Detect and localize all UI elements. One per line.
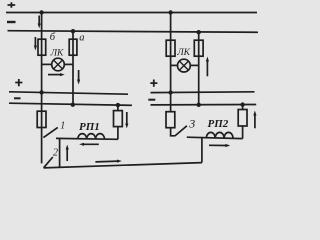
svg-text:ЛК: ЛК	[176, 48, 190, 58]
wire left column section1	[41, 13, 43, 164]
arrow down left of fuse b	[34, 37, 36, 47]
fixed wire to coil RP2	[187, 137, 243, 138]
up arrow right of fuse d	[206, 60, 208, 76]
lamp tee left stub 2	[171, 64, 178, 66]
node dot A1	[39, 10, 43, 14]
node dot C2	[197, 30, 201, 34]
minus label lower-left	[14, 97, 21, 99]
bus plus top	[6, 12, 257, 14]
right arrow under coil RP2	[209, 144, 227, 146]
minus label upper-left	[7, 21, 16, 23]
plus label lower-left	[15, 79, 22, 86]
fuse lower-left	[37, 111, 46, 127]
node dot A2	[71, 29, 75, 33]
lamp LK2	[178, 59, 191, 72]
bus minus lower-right	[151, 104, 257, 106]
bus plus lower-right	[151, 91, 255, 94]
up arrow right of lower-right fuse	[254, 114, 256, 128]
current arrow down at top-left	[38, 16, 40, 26]
svg-text:1: 1	[60, 120, 65, 131]
node dot C3	[168, 90, 172, 94]
node dot C4	[197, 103, 201, 107]
lamp LK1	[52, 58, 65, 71]
svg-text:РП2: РП2	[208, 118, 229, 130]
wire right column section1	[72, 31, 74, 105]
fuse upper c	[166, 40, 175, 56]
switch blade 2	[44, 157, 53, 168]
lamp tee left stub	[42, 63, 52, 65]
svg-text:2: 2	[53, 147, 58, 158]
switch blade 3	[175, 126, 187, 136]
node dot C5	[240, 102, 244, 106]
fuse lower-mid	[114, 111, 123, 127]
node dot B1	[39, 90, 43, 94]
svg-text:РП1: РП1	[79, 121, 100, 133]
lamp right stub	[64, 63, 73, 65]
fuse lower-right	[238, 110, 247, 127]
right arrow over bottom wire	[95, 160, 118, 163]
fixed wire to coil RP1	[56, 137, 118, 140]
arrow right under lamp1	[48, 74, 62, 76]
node dot B2	[71, 103, 75, 107]
bottom long wire	[44, 163, 202, 168]
svg-text:а: а	[79, 32, 84, 43]
bus minus lower-left	[9, 103, 132, 105]
T-drop wire right	[201, 137, 203, 162]
wire fuse mid column	[117, 105, 119, 139]
svg-text:ЛК: ЛК	[50, 49, 64, 59]
fuse b	[38, 39, 46, 55]
plus label lower-right	[150, 80, 157, 87]
left arrow under coil RP1	[83, 143, 99, 145]
switch blade 1	[43, 127, 57, 137]
minus label lower-right	[148, 99, 155, 101]
coil RP1	[78, 134, 105, 140]
svg-text:б: б	[50, 32, 56, 43]
bus plus lower-left	[9, 92, 128, 94]
lamp right stub 2	[190, 64, 198, 66]
node dot C1	[168, 10, 172, 14]
fuse lower c	[166, 112, 175, 128]
wire fuse right column section2	[242, 105, 244, 139]
wire left column section2	[171, 13, 175, 136]
up arrow near 2	[66, 148, 68, 161]
T-drop wire	[59, 138, 61, 167]
coil RP2	[206, 132, 233, 138]
node dot B3	[116, 103, 120, 107]
svg-text:3: 3	[188, 117, 195, 131]
arrow down right of leg1	[78, 70, 80, 81]
fuse d	[194, 40, 203, 56]
wire right column section2	[198, 32, 200, 105]
fuse a	[69, 39, 77, 55]
plus label upper-left	[8, 2, 16, 8]
down arrow right of lower-mid fuse	[126, 112, 128, 125]
bus minus top	[8, 31, 259, 33]
